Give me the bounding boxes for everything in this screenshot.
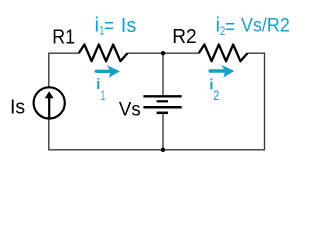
wire middle lower [162,114,164,150]
svg-text:i: i [96,77,100,93]
svg-text:R2: R2 [172,26,196,49]
svg-text:Vs: Vs [119,99,141,121]
current arrow i1 [96,65,120,78]
current arrow i2 [210,65,234,78]
battery Vs [143,96,181,113]
wire bottom [49,149,265,151]
resistor R1 [79,45,128,62]
svg-text:=: = [104,15,114,38]
resistor R2 [199,45,248,62]
svg-text:Is: Is [10,96,25,118]
svg-text:Vs/R2: Vs/R2 [241,14,290,36]
svg-text:i: i [95,14,100,37]
wire right [264,53,266,151]
label i1 = Is (top) [95,14,137,39]
svg-text:Is: Is [121,15,137,37]
svg-text:=: = [225,16,235,39]
current source Is [34,87,65,118]
node junction top [161,51,165,55]
svg-text:2: 2 [213,88,219,104]
wire top-middle segment [128,52,199,54]
label i1 (below arrow) [96,77,105,103]
label i2 = Vs/R2 (top) [216,14,290,39]
wire top-left segment [49,52,79,54]
wire top-right segment [248,52,265,54]
wire left upper [48,53,50,87]
node junction bottom [161,148,165,152]
label i2 (below arrow) [209,77,219,103]
wire left lower [48,119,50,150]
svg-text:1: 1 [101,89,106,104]
wire middle upper [162,53,164,95]
svg-text:R1: R1 [52,26,75,48]
